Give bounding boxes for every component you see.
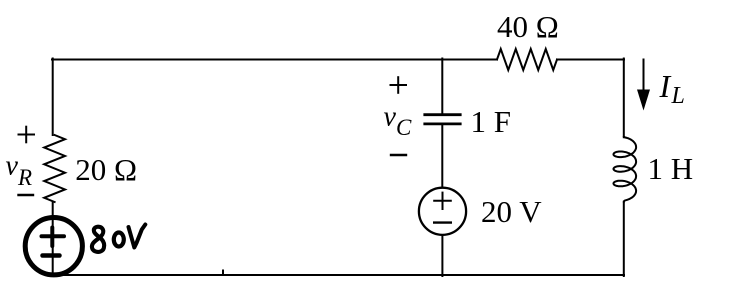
junction tick on bottom wire xyxy=(222,271,224,276)
handwritten 80V: letter V xyxy=(129,225,146,248)
resistor 20 ohm (left) xyxy=(44,135,65,202)
svg-text:R: R xyxy=(17,165,32,190)
label vR xyxy=(6,151,33,190)
wire middle lower xyxy=(441,235,443,276)
wire left upper xyxy=(52,59,54,136)
hand-drawn source circle xyxy=(25,218,82,275)
svg-text:1 F: 1 F xyxy=(471,104,512,139)
wire top-left segment xyxy=(52,59,497,61)
minus sign inside 20V source xyxy=(434,221,451,223)
svg-text:20 Ω: 20 Ω xyxy=(75,152,137,187)
svg-text:v: v xyxy=(384,102,397,133)
resistor 40 ohm (top) xyxy=(497,49,557,70)
wire middle between capacitor and source xyxy=(441,125,443,187)
current arrow IL shaft xyxy=(643,60,645,94)
hand-drawn minus inside source xyxy=(43,253,60,258)
svg-text:40 Ω: 40 Ω xyxy=(497,9,559,44)
svg-text:v: v xyxy=(6,151,19,182)
voltage source 20V circle xyxy=(419,188,466,235)
plus polarity above vR xyxy=(19,127,35,143)
handwritten 80V: digit 0 xyxy=(114,233,124,247)
svg-text:I: I xyxy=(659,68,672,104)
wire top-right segment xyxy=(557,59,624,61)
capacitor C 1F bottom plate xyxy=(425,123,460,126)
wire right lower xyxy=(623,202,625,276)
svg-text:20 V: 20 V xyxy=(481,194,542,229)
minus polarity below vC xyxy=(391,154,406,156)
svg-text:C: C xyxy=(396,115,412,140)
label IL xyxy=(659,68,685,109)
label vC xyxy=(384,102,413,140)
wire left lower xyxy=(52,202,54,276)
svg-text:L: L xyxy=(671,83,685,109)
svg-text:1 H: 1 H xyxy=(648,151,694,186)
minus polarity below vR xyxy=(19,194,34,196)
current arrow IL head xyxy=(637,90,650,111)
wire right upper xyxy=(623,59,625,138)
hand-drawn plus inside source xyxy=(42,228,65,247)
plus sign inside 20V source xyxy=(434,193,451,209)
wire middle upper xyxy=(441,59,443,114)
plus polarity above vC xyxy=(391,77,407,93)
inductor 1H coil xyxy=(614,137,637,203)
wire bottom xyxy=(52,274,624,276)
handwritten 80V: digit 8 xyxy=(92,227,104,252)
capacitor C 1F top plate xyxy=(425,113,460,116)
